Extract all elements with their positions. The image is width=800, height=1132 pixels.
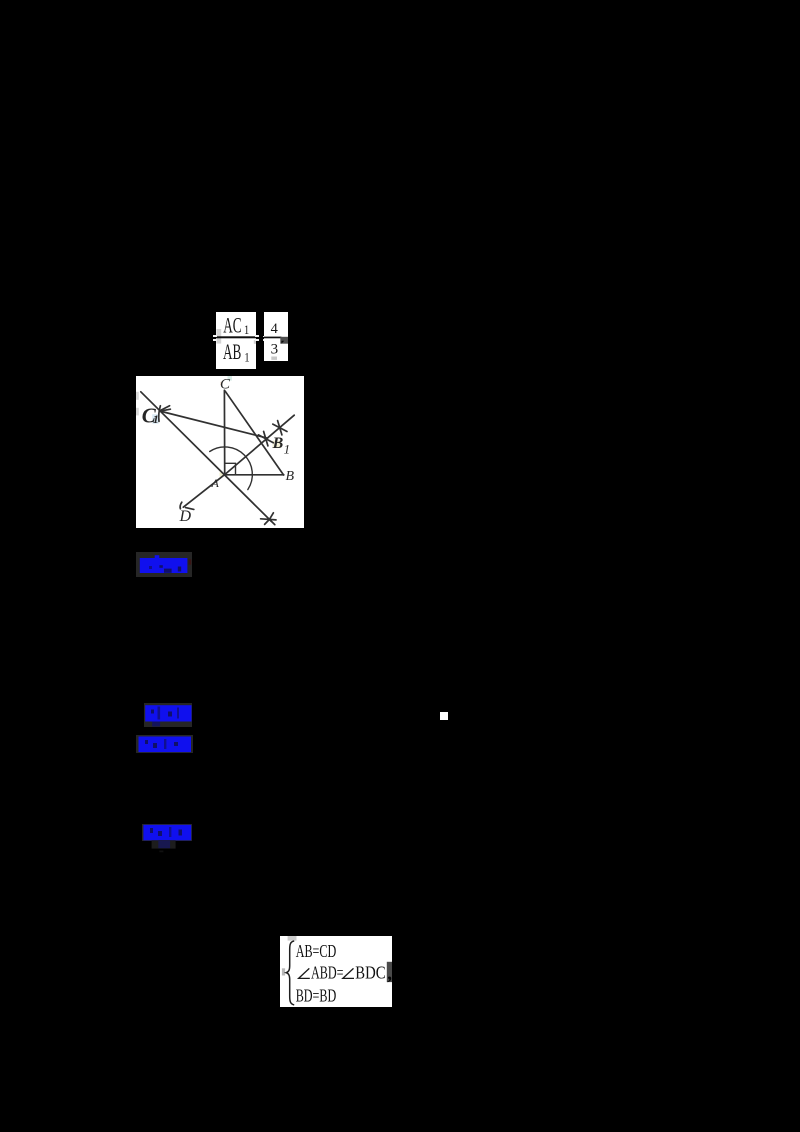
svg-text:AB: AB — [223, 339, 241, 363]
light grey artifact below 3 — [271, 356, 277, 359]
line 1: AB=CD — [295, 941, 336, 961]
asterisk arm down right — [269, 519, 274, 524]
line 2: BDC — [355, 962, 385, 983]
pale yellow tint near A — [220, 473, 224, 477]
grey edge artifact upper — [136, 392, 139, 400]
geometry construction figure — [136, 376, 304, 528]
blue highlighted label 4 — [142, 824, 192, 853]
svg-text:BDC: BDC — [355, 962, 385, 983]
svg-text:AC: AC — [223, 313, 241, 337]
asterisk arm horizontal — [261, 519, 276, 520]
svg-text:D: D — [179, 508, 192, 525]
equation image: fraction AC1/AB1 — [216, 312, 256, 369]
segment CB — [225, 391, 283, 475]
denominator AB — [223, 339, 241, 363]
black wedge artifact — [281, 340, 284, 343]
denominator subscript 1 — [244, 350, 249, 364]
small white square — [440, 712, 448, 720]
equals sign fragment left of fraction — [213, 335, 218, 337]
ray A to B1 extended — [225, 415, 295, 474]
segment AB horizontal — [225, 474, 284, 476]
svg-text:C: C — [220, 377, 231, 393]
dark remnant block below — [152, 840, 176, 848]
segment C1 B1 — [160, 411, 268, 438]
svg-text:4: 4 — [271, 320, 278, 336]
equals sign fragment between fractions — [255, 335, 259, 337]
arrow barb upper at C1 — [160, 406, 170, 411]
grey artifact right — [254, 340, 256, 344]
svg-text:A: A — [211, 476, 220, 490]
line 2 angle symbol 1 — [298, 968, 309, 978]
right angle square at A — [225, 463, 236, 474]
svg-text:ABD=: ABD= — [311, 963, 344, 983]
grey artifact left edge — [281, 968, 284, 975]
grey edge artifact lower — [136, 408, 139, 416]
line 3: BD=BD — [295, 986, 336, 1006]
svg-text:1: 1 — [284, 442, 291, 457]
pink tint artifact near C — [220, 382, 222, 386]
fraction bar — [264, 336, 281, 338]
compass X tick beyond B1 stroke 1 — [278, 421, 282, 435]
left curly brace — [286, 941, 294, 1005]
dark grey artifact right edge — [386, 962, 391, 982]
compass tick at D — [180, 502, 182, 509]
light blue tint behind C1 subscript — [152, 414, 159, 424]
blue highlighted label 2 — [144, 703, 192, 727]
numerator subscript 1 — [244, 322, 249, 336]
svg-text:3: 3 — [271, 341, 279, 357]
asterisk arm up right — [269, 513, 273, 520]
svg-text:,: , — [387, 963, 392, 984]
numerator AC — [223, 313, 241, 337]
svg-text:1: 1 — [153, 412, 159, 426]
grey artifact top left — [287, 936, 296, 941]
line 2 angle symbol 2 — [342, 968, 353, 978]
angle arc around A — [210, 447, 253, 490]
blue highlighted label 3 — [136, 735, 193, 753]
compass X tick at B1 stroke 2 — [259, 435, 274, 443]
compass tick at C1 — [159, 406, 161, 422]
asterisk arm down left — [265, 519, 270, 524]
segment CA vertical — [223, 390, 225, 474]
cyan tint artifact near C — [228, 376, 233, 381]
main diagonal line through C1 A and asterisk — [141, 392, 272, 522]
dash right of D tick — [186, 508, 194, 510]
compass X tick beyond B1 stroke 2 — [273, 424, 287, 431]
compass X tick at B1 stroke 1 — [264, 431, 268, 446]
svg-text:AB=CD: AB=CD — [295, 941, 336, 961]
svg-text:B: B — [272, 435, 284, 452]
grey artifact left — [216, 329, 221, 344]
equation image: fraction 4/3 — [264, 312, 288, 361]
arrow barb lower at C1 — [160, 409, 171, 411]
svg-text:1: 1 — [244, 322, 249, 336]
svg-text:BD=BD: BD=BD — [295, 986, 336, 1006]
dark grey artifact — [280, 336, 288, 343]
numerator 4 — [271, 320, 278, 336]
svg-text:1: 1 — [244, 350, 249, 364]
pale yellow tint behind B1 label — [273, 441, 282, 449]
equation image: system of equations with brace — [280, 936, 392, 1007]
svg-text:B: B — [286, 469, 295, 484]
fraction bar — [216, 336, 256, 338]
ray A to D — [183, 475, 224, 508]
blue highlighted label 1 — [136, 552, 192, 577]
denominator 3 — [271, 341, 279, 357]
line 2: ABD= — [311, 963, 344, 983]
